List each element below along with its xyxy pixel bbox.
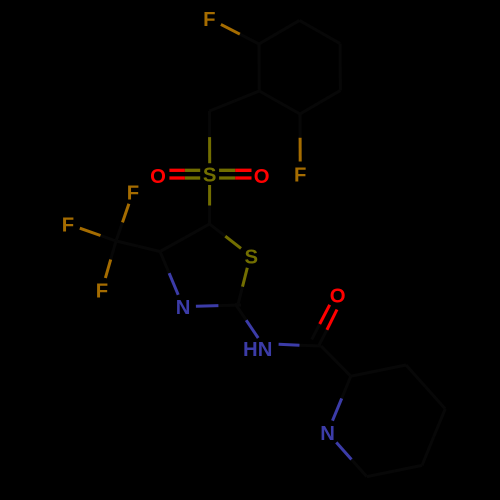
bond S(sulfonyl)-C5 thiazole: [208, 185, 211, 224]
bond C2-NH: [235, 304, 258, 339]
svg-text:O: O: [254, 166, 270, 188]
bond CF3-Fc: [105, 241, 116, 278]
bond NH-C(=O) amide: [279, 344, 321, 346]
wire pyridine ring bond C4p-C5p: [422, 409, 445, 466]
svg-text:O: O: [330, 286, 346, 308]
bond C4=C5 thiazole: [160, 224, 210, 252]
bond C5-S1 thiazole: [210, 224, 242, 248]
bond C6'-F2 (ring fluorine): [299, 114, 302, 162]
bond CF3-Fa: [116, 204, 129, 241]
bond C1'-CH2 (benzyl): [210, 91, 260, 111]
double bond S=O right: [219, 170, 251, 178]
svg-text:N: N: [176, 297, 191, 319]
wire pyridine ring bond C2p-C3p: [351, 365, 406, 376]
svg-text:S: S: [245, 247, 259, 269]
svg-text:F: F: [127, 182, 139, 204]
wire pyridine ring bond C5p-C6p: [367, 465, 422, 476]
bond C4-CF3: [116, 241, 160, 252]
svg-text:F: F: [62, 214, 74, 236]
double bond C=O amide: [312, 305, 337, 346]
bond C2p=N pyridine: [333, 376, 351, 421]
wire ring bond C4r-C5r: [339, 44, 342, 91]
bond N3-C4 thiazole: [160, 252, 178, 295]
wire ring bond C2r-C3r: [259, 20, 299, 44]
wire ring bond C6r-C1r: [259, 91, 300, 114]
bond F1-C2' (top fluorine to ring): [221, 24, 259, 44]
svg-text:N: N: [320, 423, 335, 445]
bond N-C6p pyridine: [336, 442, 367, 476]
wire ring bond C3r-C4r: [299, 20, 340, 43]
svg-text:F: F: [294, 164, 306, 186]
wire ring bond C1r-C2r: [258, 44, 261, 91]
bond CF3-Fb: [80, 228, 116, 241]
wire pyridine ring bond C3p-C4p: [406, 365, 445, 409]
svg-text:F: F: [203, 9, 215, 31]
double bond S=O left: [169, 170, 200, 178]
svg-text:O: O: [150, 166, 166, 188]
svg-text:HN: HN: [243, 339, 272, 361]
bond S1-C2 thiazole: [238, 268, 248, 306]
svg-text:F: F: [96, 280, 108, 302]
bond C(=O)-C2 pyridine: [321, 346, 351, 376]
bond CH2-S (sulfonyl): [208, 111, 211, 163]
bond C2=N3 thiazole: [196, 305, 241, 306]
wire ring bond C5r-C6r: [300, 90, 340, 114]
svg-text:S: S: [203, 164, 217, 186]
